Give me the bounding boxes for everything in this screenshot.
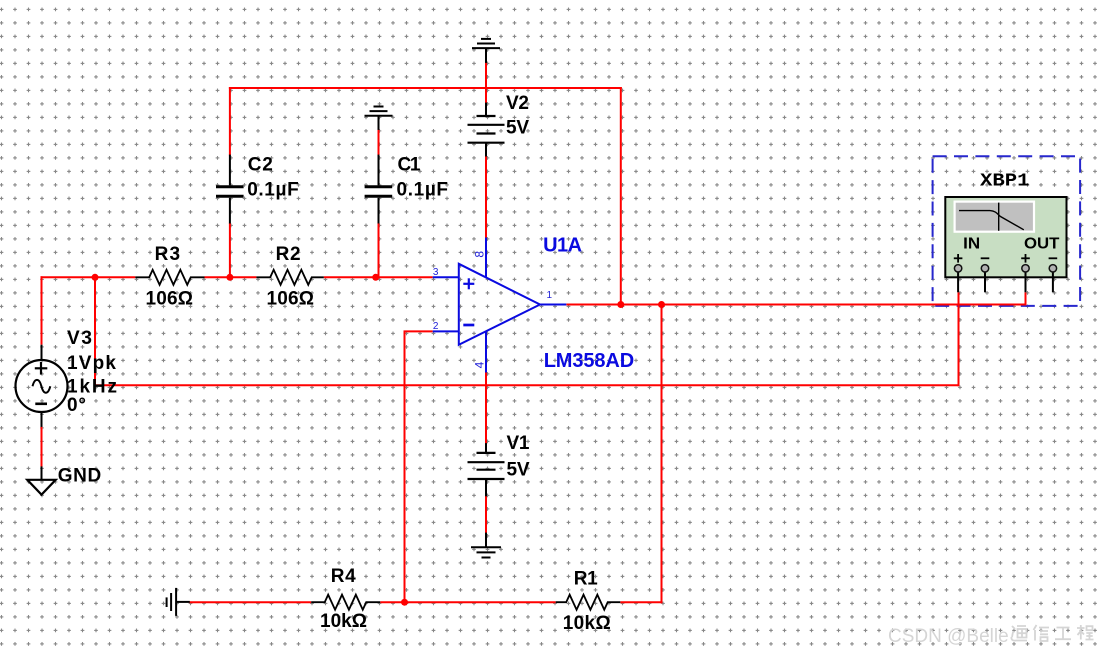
resistor R3 [135,270,204,285]
wire: XBP1 OUT+ vertical [1025,292,1027,305]
svg-text:C1: C1 [398,155,421,176]
svg-text:0.1µF: 0.1µF [397,179,449,200]
junction input node at x=95 [92,274,99,281]
ground above V2 [472,39,500,63]
wire: input run y=385 to bode plotter IN [94,384,959,386]
XBP1 IN- pin [981,265,988,293]
wire: V1 to ground [485,496,487,533]
resistor R1 [556,595,621,610]
svg-text:1Vpk: 1Vpk [67,353,116,374]
battery V2 [468,103,505,157]
svg-text:LM358AD: LM358AD [544,350,635,372]
wire: C1 ground stub to cap [378,129,380,155]
svg-text:5V: 5V [507,459,530,480]
ground above C1 [365,107,393,130]
junction output/feedback node [658,301,665,308]
ground below V1 [471,533,501,558]
op-amp pin 3 lead [433,276,459,278]
svg-text:IN: IN [963,235,980,252]
op-amp pin 2 lead [433,330,459,332]
bode plotter XBP1 body [945,197,1066,277]
svg-text:5V: 5V [506,118,529,139]
wire: R3 to R2 [205,276,257,278]
XBP1 IN+ polarity mark [954,254,963,263]
wire: R2 to op-amp pin 3 [324,276,433,278]
svg-text:U1A: U1A [543,235,582,257]
svg-text:R4: R4 [331,566,356,587]
wire: top rail from C2 to output column [229,87,622,89]
wire: V2 ground to battery [485,62,487,103]
XBP1 IN- polarity mark [981,257,990,259]
wire: C2 top drop [229,87,231,156]
wire: C1 bottom to node [378,223,380,278]
wire: output to feedback column x=661.5 [661,304,663,604]
svg-text:3: 3 [433,267,439,278]
wire: V3 top vertical [41,276,43,344]
svg-text:OUT: OUT [1024,235,1060,252]
svg-text:V3: V3 [67,328,92,349]
wire: left ground to R4 [189,601,311,603]
svg-text:8: 8 [473,251,487,258]
wire: XBP1 IN+ vertical [958,292,960,386]
wire: C2 bottom to node [229,223,231,278]
voltage source V3 [16,345,68,427]
wire: input node drop x=95 [94,277,96,385]
svg-text:R3: R3 [155,244,181,265]
wire: op-amp pin 4 to V1 [485,373,487,444]
junction R2/C1 node [372,274,379,281]
wire: R4 to R1 [380,601,556,603]
wire: V2 to op-amp pin 8 [485,156,487,238]
svg-text:106Ω: 106Ω [267,289,315,310]
XBP1 IN+ pin [954,265,961,293]
op-amp pin 4 lead [485,332,487,373]
op-amp pin 1 lead [540,304,566,306]
wire: to op-amp pin 2 [404,330,433,332]
svg-text:1: 1 [547,290,553,301]
svg-text:0°: 0° [67,395,86,416]
battery V1 [468,443,505,496]
svg-text:10kΩ: 10kΩ [563,613,611,634]
XBP1 OUT- polarity mark [1049,257,1058,259]
wire: R1 to feedback column [620,601,662,603]
svg-text:CSDN @Belle: CSDN @Belle [888,626,1009,647]
ground left of R4 [167,588,190,616]
wire: op-amp output run [566,304,1025,306]
XBP1 OUT+ polarity mark [1021,254,1030,263]
svg-text:R2: R2 [276,244,301,265]
svg-text:0.1µF: 0.1µF [247,179,299,200]
capacitor C1 [365,155,393,224]
ground GND below V3 [27,466,55,494]
junction R3/R2/C2 node [226,274,233,281]
svg-text:GND: GND [58,466,101,487]
svg-text:106Ω: 106Ω [146,289,194,310]
XBP1 OUT- pin [1049,265,1056,293]
junction output/top-rail node [617,301,624,308]
wire: V3 bottom to GND [41,426,43,467]
svg-text:XBP1: XBP1 [980,172,1030,192]
wire: V3 to R3 [41,276,136,278]
XBP1 selection box [933,156,1081,306]
svg-text:10kΩ: 10kΩ [320,611,367,632]
svg-text:V2: V2 [506,93,529,114]
capacitor C2 [216,155,244,224]
resistor R4 [311,595,380,610]
svg-text:V1: V1 [507,433,530,454]
svg-text:4: 4 [473,361,487,368]
junction R4/R1/inverting node [401,599,408,606]
op-amp pin 8 lead [485,238,487,278]
op-amp U1A [459,264,540,345]
wire: inverting input column x=404.5 [404,331,406,603]
wire: output column x=620.8 [620,87,622,305]
svg-text:C2: C2 [248,155,273,176]
svg-text:R1: R1 [574,569,598,590]
svg-text:2: 2 [433,321,439,332]
resistor R2 [256,270,323,285]
XBP1 OUT+ pin [1022,265,1029,293]
